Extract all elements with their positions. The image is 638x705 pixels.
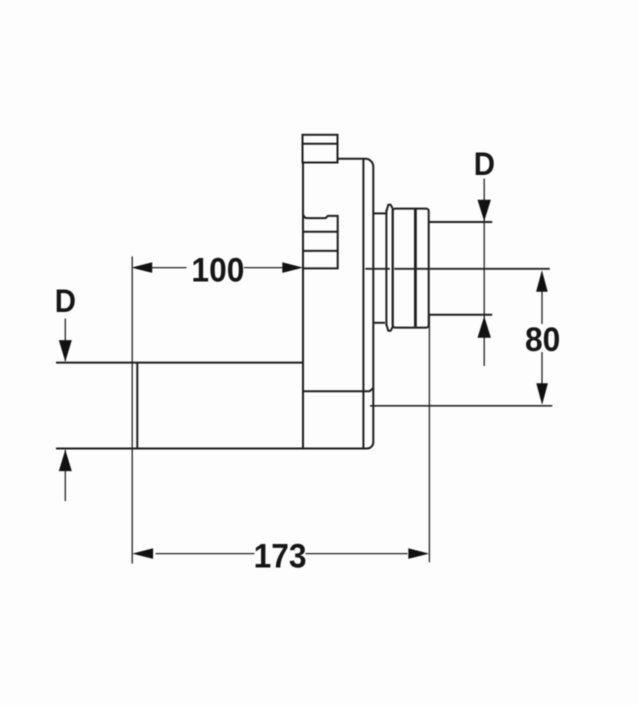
svg-text:80: 80 [525,321,560,360]
svg-text:D: D [474,146,495,183]
svg-text:173: 173 [254,537,307,576]
svg-text:D: D [55,283,76,320]
svg-text:100: 100 [191,251,244,290]
